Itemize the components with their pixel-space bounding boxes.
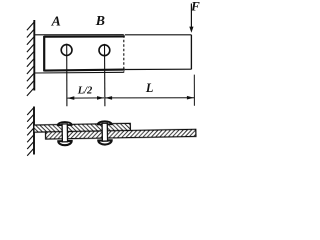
- svg-text:F: F: [190, 0, 200, 13]
- svg-text:B: B: [95, 13, 105, 28]
- svg-text:L: L: [145, 81, 154, 95]
- svg-text:A: A: [51, 14, 61, 29]
- svg-text:L/2: L/2: [77, 85, 93, 96]
